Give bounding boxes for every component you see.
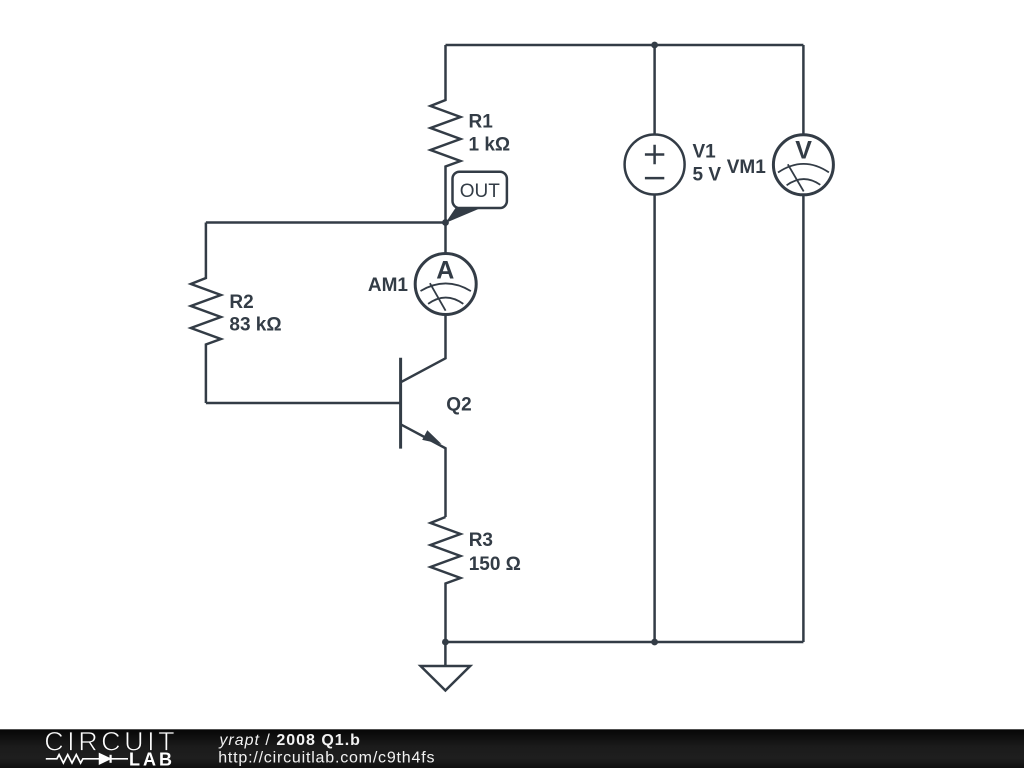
svg-text:Q2: Q2 <box>446 394 471 415</box>
wire VM1 column bottom <box>802 195 805 642</box>
svg-text:5 V: 5 V <box>693 164 722 185</box>
svg-text:R3: R3 <box>469 530 493 551</box>
label V1 value <box>693 142 722 186</box>
voltage source V1 <box>625 135 685 195</box>
svg-text:R1: R1 <box>469 111 494 132</box>
svg-text:V: V <box>795 137 812 165</box>
wire VM1 column top <box>802 45 805 135</box>
svg-text:yrapt / 2008 Q1.b: yrapt / 2008 Q1.b <box>218 732 361 749</box>
label R2 value <box>229 292 281 336</box>
svg-text:1 kΩ: 1 kΩ <box>469 134 511 155</box>
svg-text:R2: R2 <box>229 292 253 313</box>
svg-text:LAB: LAB <box>129 749 175 768</box>
logo resistor-diode line <box>46 754 128 764</box>
footer bar <box>0 729 1024 768</box>
wire OUT row <box>206 221 446 224</box>
node OUT junction <box>442 219 449 226</box>
svg-text:150 Ω: 150 Ω <box>469 554 521 575</box>
wire emitter <box>401 424 446 517</box>
svg-text:OUT: OUT <box>460 181 501 202</box>
label R1 value <box>469 111 511 155</box>
wire base <box>206 402 401 405</box>
svg-text:A: A <box>436 257 454 285</box>
transistor Q2 <box>401 358 442 449</box>
wire ammeter top lead <box>444 223 447 254</box>
ground <box>444 642 447 666</box>
wire V1 column top <box>653 45 656 135</box>
svg-text:83 kΩ: 83 kΩ <box>229 314 281 335</box>
node bottom junction at ground <box>442 639 449 646</box>
resistor R1 <box>431 45 461 223</box>
wire bottom rail <box>445 641 803 644</box>
svg-text:VM1: VM1 <box>727 157 767 178</box>
wire collector <box>401 315 446 383</box>
node OUT flag <box>445 172 507 223</box>
wire V1 column bottom <box>653 195 656 643</box>
node top junction <box>651 42 658 49</box>
ammeter AM1 <box>415 254 476 315</box>
svg-text:V1: V1 <box>693 142 717 163</box>
voltmeter VM1 <box>773 135 833 195</box>
resistor R2 <box>191 223 221 404</box>
label R3 value <box>469 530 521 575</box>
svg-text:http://circuitlab.com/c9th4fs: http://circuitlab.com/c9th4fs <box>218 750 435 767</box>
svg-text:AM1: AM1 <box>368 275 409 296</box>
node bottom junction V1 <box>651 639 658 646</box>
wire top rail <box>446 44 804 47</box>
resistor R3 <box>431 517 461 642</box>
